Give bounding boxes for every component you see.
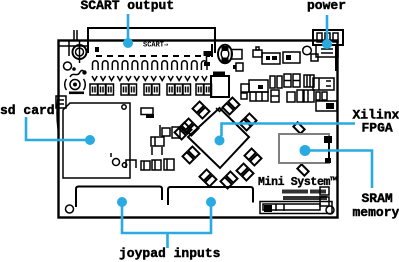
SCART pin dashed row <box>96 55 210 57</box>
diode D1 <box>311 54 318 61</box>
resistor R1 <box>241 93 247 99</box>
mounting hole top-right <box>303 46 312 55</box>
IC U3 <box>313 78 334 90</box>
RCA jack J2 <box>218 45 242 63</box>
IC U5 <box>262 53 280 64</box>
FPGA U1 (rotated) <box>188 108 249 168</box>
SCART pin v row <box>92 76 207 81</box>
capacitor pair CP1 (upper-left of FPGA) <box>193 102 210 119</box>
capacitor pair CP4 (left-upper of FPGA) <box>182 119 199 136</box>
jumper JP1 <box>126 160 136 168</box>
IC U12 <box>172 127 180 138</box>
IC U11 <box>160 125 170 136</box>
resistor R3 <box>297 90 303 102</box>
svg-text:memory: memory <box>353 205 399 220</box>
callout: sd card label <box>0 103 55 118</box>
callout: SRAM memory label <box>353 191 399 220</box>
resistor R8 <box>164 159 174 170</box>
callout: joypad inputs lines <box>117 197 216 248</box>
IC U4 <box>253 47 262 57</box>
regulator U2 (left edge) <box>56 96 66 108</box>
IC U6 <box>283 52 300 63</box>
callout: SRAM memory line <box>300 145 373 188</box>
inductor L2 <box>213 72 225 77</box>
SCART silk label <box>143 42 168 50</box>
callout: Xilinx FPGA line <box>215 124 356 146</box>
capacitor C5b <box>277 76 282 88</box>
capacitor C7 (above SRAM) <box>293 122 304 133</box>
sd card slot <box>57 91 130 178</box>
IC U3b <box>316 101 337 111</box>
callout: sd card line <box>26 117 95 145</box>
svg-text:power: power <box>307 0 346 13</box>
diode D2 <box>233 63 243 71</box>
Mini System logo <box>258 176 337 200</box>
capacitor pair CP10 (lower-right chain) <box>237 164 254 181</box>
svg-text:SCART⇒: SCART⇒ <box>143 42 168 50</box>
joypad connector J4 <box>76 187 162 208</box>
expansion connector J6 <box>260 202 332 214</box>
IC U13 <box>151 137 164 146</box>
capacitor pair CP9 (right-lower of FPGA) <box>245 149 262 166</box>
capacitor C2 (trimmer with brackets) <box>65 79 86 94</box>
board outline <box>59 41 338 218</box>
resistor network RN1 <box>250 92 268 101</box>
power connector J3 <box>313 30 343 71</box>
capacitor pair CP7 (bottom-right of FPGA) <box>221 172 238 189</box>
capacitor C6a <box>284 74 291 87</box>
capacitor C5a <box>270 76 275 88</box>
IC U7 <box>211 76 229 97</box>
resistor R2 <box>287 92 295 102</box>
callout: Xilinx FPGA label <box>353 108 399 136</box>
callout: SCART output label <box>81 0 175 13</box>
callout: joypad inputs label <box>119 246 221 261</box>
resistor R5c <box>322 92 327 100</box>
SCART pin arc row <box>93 61 208 70</box>
svg-text:sd card: sd card <box>0 103 55 118</box>
resistor R4 <box>304 90 314 102</box>
flag component F1 <box>141 108 154 118</box>
resistor R5b <box>316 92 320 100</box>
capacitor C7b <box>271 90 279 102</box>
capacitor pair CP2 (upper-right of FPGA) <box>223 98 240 115</box>
callout: power label <box>307 0 346 13</box>
mounting hole bottom-left <box>66 205 74 213</box>
capacitor pair CP6 (bottom-left of FPGA) <box>200 170 217 187</box>
IC U13 pins <box>152 147 162 155</box>
IC U15 (right edge) <box>320 187 329 195</box>
resistor pack row <box>90 84 212 95</box>
capacitor C8 (below SRAM) <box>297 164 308 175</box>
callout: power line <box>322 15 332 49</box>
LED D3 <box>111 153 120 166</box>
inductor squiggle <box>70 70 87 77</box>
svg-text:FPGA: FPGA <box>362 121 393 136</box>
capacitor C1 (electrolytic, top-left) <box>73 41 87 63</box>
mounting hole top-left <box>64 62 76 71</box>
wire stub left of C1 <box>58 40 87 56</box>
callout: SCART output line <box>123 14 133 48</box>
capacitor pair CP5 (left-lower of FPGA) <box>183 147 200 164</box>
capacitor pair CP3 (right-upper of FPGA) <box>240 114 257 131</box>
capacitor pair CP8 (mid-left of FPGA) <box>175 123 192 140</box>
svg-text:SRAM: SRAM <box>362 191 393 206</box>
mounting hole bottom-right <box>326 206 334 214</box>
IC U8 <box>241 80 268 92</box>
svg-text:SCART output: SCART output <box>81 0 175 13</box>
svg-text:joypad inputs: joypad inputs <box>119 246 221 261</box>
SRAM U10 <box>279 134 332 163</box>
capacitor C6b <box>293 74 300 87</box>
resistor R6 <box>141 161 150 170</box>
resistor R7 <box>152 160 161 170</box>
IC U16 (right edge) <box>320 197 329 206</box>
joypad connector J5 <box>168 187 253 205</box>
IC U9 <box>304 75 314 87</box>
SCART connector J1 shell <box>74 28 216 66</box>
